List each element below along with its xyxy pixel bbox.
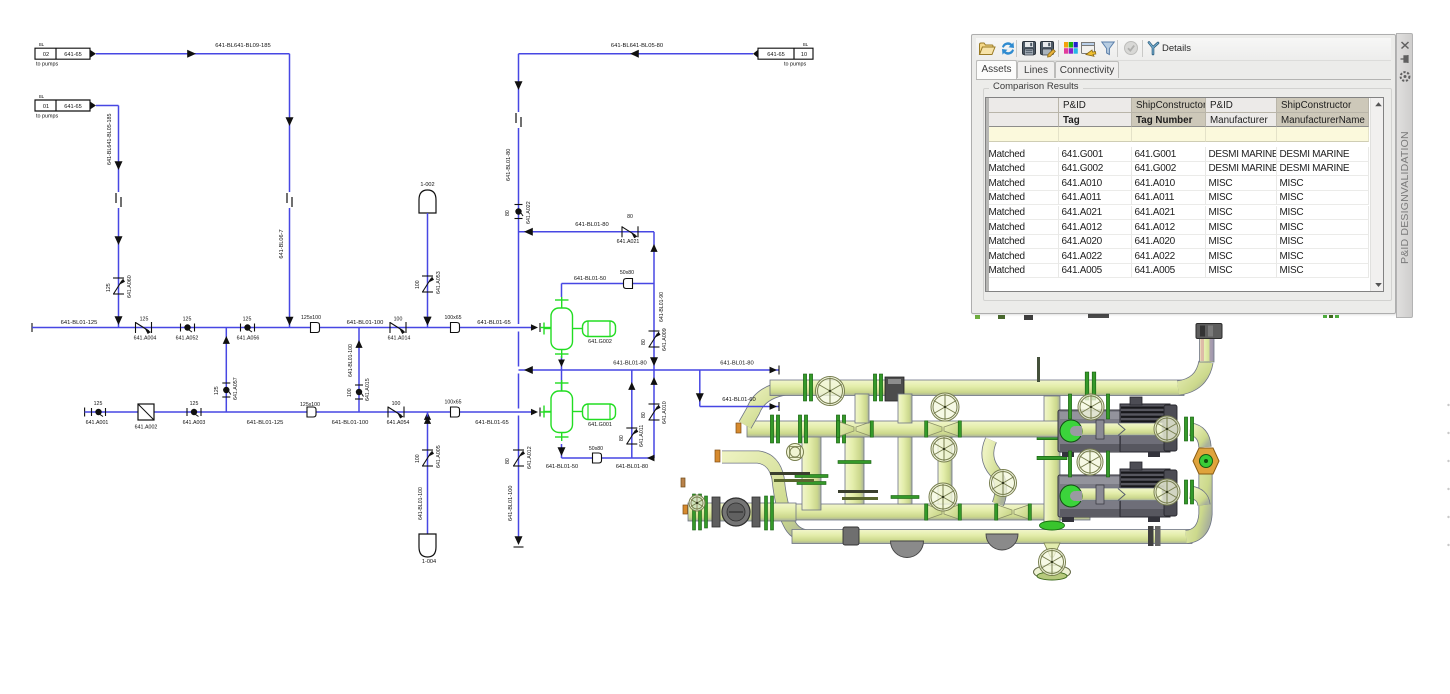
svg-text:80: 80: [641, 412, 647, 418]
globe valve dark body: [712, 497, 720, 527]
faint grid dots right edge: [1447, 404, 1449, 406]
svg-text:641-BL641-BL05-185: 641-BL641-BL05-185: [107, 113, 113, 165]
svg-text:1-002: 1-002: [420, 182, 434, 188]
svg-text:to pumps: to pumps: [36, 62, 58, 68]
orange stub left: [683, 505, 688, 514]
valve 641.A052: [180, 324, 182, 332]
svg-text:641-BL01-60: 641-BL01-60: [722, 397, 756, 403]
svg-text:125x100: 125x100: [300, 402, 320, 408]
orange hex fitting: [1193, 448, 1219, 474]
svg-text:125: 125: [183, 317, 192, 323]
reducer 50x80: [624, 279, 633, 289]
wire lower main: [84, 408, 86, 417]
svg-text:641.A009: 641.A009: [662, 328, 668, 351]
flange pair runA: [873, 374, 876, 401]
off-page flag right 641-65 10: [758, 48, 813, 59]
svg-text:641.A001: 641.A001: [86, 420, 109, 426]
handwheel: [990, 470, 1017, 497]
svg-text:125: 125: [106, 283, 112, 292]
svg-text:641.A053: 641.A053: [436, 271, 442, 294]
check valve 641.A004: [135, 322, 137, 333]
svg-text:80: 80: [627, 214, 633, 220]
junction arrow: [424, 412, 431, 420]
svg-text:BL: BL: [803, 42, 809, 47]
riser x=855: [845, 437, 864, 504]
off-page flag 01 641-65: [35, 100, 90, 111]
svg-text:641.A015: 641.A015: [365, 378, 371, 401]
gate valve on run C: [926, 504, 942, 519]
svg-text:125: 125: [214, 386, 220, 395]
riser left x=811: [802, 432, 821, 510]
pump unit lower: [1058, 475, 1124, 517]
pipe elbow runA left: [745, 388, 786, 425]
wire dome to main: [427, 213, 429, 328]
reducer 125x100: [311, 323, 320, 333]
svg-text:641.A057: 641.A057: [233, 377, 239, 400]
svg-text:641-BL01-125: 641-BL01-125: [247, 420, 284, 426]
svg-text:641-BL01-80: 641-BL01-80: [575, 222, 609, 228]
svg-text:641-BL01-100: 641-BL01-100: [332, 420, 369, 426]
svg-text:125x100: 125x100: [301, 315, 321, 321]
svg-text:641-BL01-50: 641-BL01-50: [574, 276, 606, 282]
wire from flag 01: [96, 105, 119, 107]
svg-text:to pumps: to pumps: [784, 62, 806, 68]
svg-text:641-65: 641-65: [64, 52, 81, 58]
valve 641.A010: [649, 403, 660, 405]
valve 641.A053: [422, 275, 433, 277]
pump inlet flanges: [1068, 394, 1071, 419]
svg-text:641.A060: 641.A060: [127, 275, 133, 298]
valve 641.A005: [422, 449, 433, 451]
svg-text:641.A054: 641.A054: [387, 420, 410, 426]
valve 641.A056: [240, 324, 242, 332]
small wireframe valve: [689, 495, 705, 511]
wire 641-BL641-BL05-80 horizontal: [519, 53, 754, 55]
pipe run lower-middle: [756, 504, 1090, 520]
svg-text:100x65: 100x65: [444, 315, 461, 321]
svg-text:125: 125: [94, 401, 103, 407]
pipe run bottom: [792, 530, 1192, 544]
relief valve wheel: [1039, 549, 1066, 576]
pump 641.G002: [551, 308, 573, 350]
relief valve base: [1034, 565, 1071, 579]
svg-text:641-BL01-80: 641-BL01-80: [616, 464, 648, 470]
svg-text:641.A004: 641.A004: [134, 336, 157, 342]
into pump G001: [531, 409, 538, 415]
svg-text:641-BL01-50: 641-BL01-50: [546, 464, 578, 470]
svg-text:641-BL01-80: 641-BL01-80: [506, 149, 512, 181]
svg-text:125: 125: [243, 317, 252, 323]
valve 641.A060: [113, 277, 124, 279]
svg-text:641.A010: 641.A010: [662, 401, 668, 424]
dark flange pair on run D: [1148, 526, 1154, 546]
wire 641-BL01-60 branch: [699, 370, 701, 407]
green bonnet: [1040, 521, 1065, 530]
svg-text:641.G001: 641.G001: [588, 422, 612, 428]
green flange stack left: [693, 494, 696, 530]
riser big x=1052: [1044, 396, 1060, 524]
flange pairs runB: [770, 415, 773, 443]
handwheel on runA: [816, 377, 845, 406]
svg-text:641-65: 641-65: [767, 52, 784, 58]
valve 641.A014: [389, 322, 391, 333]
left-mid orange stub pipe: [715, 450, 720, 462]
handwheel: [929, 483, 957, 511]
svg-text:641-BL01-100: 641-BL01-100: [347, 320, 384, 326]
pipe clamp dark: [843, 527, 859, 545]
valve 641.A022: [515, 204, 523, 206]
svg-text:641.A012: 641.A012: [527, 446, 533, 469]
flange pair runA right: [1085, 372, 1089, 400]
orange stub runB: [736, 423, 741, 433]
svg-text:641-BL01-65: 641-BL01-65: [475, 420, 509, 426]
reducer 50x80: [593, 453, 602, 463]
svg-text:50x80: 50x80: [620, 270, 634, 276]
svg-text:641-BL641-BL09-185: 641-BL641-BL09-185: [215, 43, 270, 49]
valve 641.A057: [222, 382, 230, 384]
relief valve cone: [1044, 543, 1060, 557]
svg-text:641.A002: 641.A002: [135, 425, 158, 431]
svg-text:80: 80: [619, 435, 625, 441]
strainer 641.A002: [138, 404, 154, 420]
wire upper main: [31, 323, 33, 332]
wire 641-BL01-80 upper branch: [519, 231, 655, 233]
pump 641.G001: [551, 391, 573, 433]
svg-text:100: 100: [415, 454, 421, 463]
riser A-B x=862: [855, 394, 869, 423]
valve 641.A001: [91, 408, 93, 416]
small round valve face: [787, 444, 804, 461]
orange tick: [681, 478, 685, 487]
svg-text:125: 125: [190, 401, 199, 407]
flanges on risers: [838, 461, 871, 464]
svg-text:100: 100: [392, 401, 401, 407]
handwheel: [931, 436, 957, 462]
svg-text:641-BL01-100: 641-BL01-100: [508, 486, 514, 521]
svg-text:100: 100: [394, 317, 403, 323]
svg-text:641.A056: 641.A056: [237, 336, 260, 342]
gate valve runB: [926, 421, 942, 436]
svg-text:100: 100: [347, 388, 353, 397]
svg-text:to pumps: to pumps: [36, 114, 58, 120]
svg-text:641-BL01-100: 641-BL01-100: [418, 487, 424, 520]
pipe end: [515, 536, 523, 545]
svg-text:641-BL01-125: 641-BL01-125: [61, 320, 98, 326]
svg-text:100: 100: [415, 280, 421, 289]
svg-text:125: 125: [140, 317, 149, 323]
valve 641.A012: [513, 449, 524, 451]
line break symbol: [284, 192, 296, 208]
wire x=226.3 crossover: [225, 328, 227, 413]
svg-text:1-004: 1-004: [422, 559, 436, 565]
wire 641-BL01-80 main horizontal: [519, 369, 780, 371]
wire vertical 641-BL01-90: [653, 284, 655, 459]
P&ID DesignValidation palette panel: [971, 34, 1396, 314]
svg-text:80: 80: [505, 210, 511, 216]
riser x=905: [898, 437, 912, 504]
svg-text:641.A003: 641.A003: [183, 420, 206, 426]
wire vertical 641-BL01-80 x=518.5: [518, 54, 520, 324]
gate valve on run C: [996, 504, 1012, 519]
handwheel right lower: [1154, 479, 1180, 505]
riser A-B x=905: [898, 394, 912, 423]
elbow pump1 to right vertical: [1190, 429, 1205, 447]
pipe run top: [770, 380, 1184, 396]
svg-text:641-BL01-80: 641-BL01-80: [613, 361, 647, 367]
left pipe: [688, 503, 796, 521]
svg-text:641-BL01-100: 641-BL01-100: [348, 344, 354, 377]
svg-text:50x80: 50x80: [589, 446, 603, 452]
wire 641-BL01-50/80 bottom: [561, 444, 563, 458]
small pipe tops under panel: [975, 315, 980, 319]
svg-text:641.A022: 641.A022: [526, 201, 532, 224]
svg-text:80: 80: [505, 458, 511, 464]
line break symbol: [513, 112, 525, 128]
riser x=945: [938, 437, 952, 504]
pipe cap dark: [1196, 324, 1222, 339]
wire x=631.8 crossover: [631, 370, 633, 458]
svg-text:80: 80: [641, 339, 647, 345]
dark box on runA: [885, 377, 904, 401]
handwheel: [931, 393, 959, 421]
wire vertical x=289.5 drop: [289, 54, 291, 328]
wire G002 drain: [561, 356, 563, 370]
handwheel right upper: [1154, 416, 1180, 442]
line break symbol: [113, 192, 125, 208]
svg-text:641-BL06-7: 641-BL06-7: [279, 229, 285, 258]
valve 641.A015: [355, 384, 363, 386]
check valve 641.A021: [621, 226, 623, 237]
svg-text:641.A005: 641.A005: [436, 445, 442, 468]
svg-text:641.A014: 641.A014: [388, 336, 411, 342]
svg-text:02: 02: [43, 52, 49, 58]
svg-text:641-65: 641-65: [64, 104, 81, 110]
svg-text:641-BL641-BL05-80: 641-BL641-BL05-80: [611, 43, 663, 49]
off-page flag 02 641-65: [35, 48, 90, 59]
wire vertical x=654: [653, 232, 655, 284]
svg-text:BL: BL: [39, 94, 45, 99]
svg-text:641.G002: 641.G002: [588, 339, 612, 345]
support saddle: [986, 534, 1018, 550]
svg-text:641-BL01-65: 641-BL01-65: [477, 320, 511, 326]
svg-text:100x65: 100x65: [444, 400, 461, 406]
pump handwheel upper: [1078, 394, 1104, 420]
svg-text:01: 01: [43, 104, 49, 110]
svg-text:10: 10: [801, 52, 807, 58]
wire G001 top stub: [561, 370, 563, 391]
svg-text:641-BL01-90: 641-BL01-90: [659, 292, 665, 322]
reducer 100x65: [451, 407, 460, 417]
elbow pump2 to right vertical: [1190, 492, 1204, 505]
flange pair runA: [803, 374, 806, 401]
pipe sweep left-bottom: [722, 457, 806, 536]
valve 641.A003: [186, 408, 188, 416]
support saddle: [891, 541, 924, 558]
big elbow top-right: [1178, 362, 1206, 388]
dark stick above runA: [1037, 357, 1040, 382]
svg-text:BL: BL: [39, 42, 45, 47]
pump unit upper: [1058, 410, 1124, 452]
tank 1-004: [419, 534, 436, 557]
wire 641-BL641-BL09-185 horizontal: [96, 53, 290, 55]
svg-text:641.A011: 641.A011: [639, 425, 645, 447]
pump handwheel lower: [1077, 449, 1103, 475]
dark thin flange plates: [770, 472, 810, 475]
pipe run second: [747, 421, 1068, 437]
valve 641.A054: [387, 407, 389, 418]
reducer 100x65: [451, 323, 460, 333]
valve 641.A011: [626, 427, 637, 429]
s-pipe mid: [988, 440, 1001, 504]
right vertical pipe with bottom elbow: [1186, 452, 1206, 537]
svg-text:641.A052: 641.A052: [176, 336, 199, 342]
wire lower dome branch: [427, 412, 429, 534]
svg-text:641.A021: 641.A021: [617, 239, 640, 245]
tank 1-002: [419, 190, 436, 213]
into pump G002: [531, 324, 538, 330]
valve 641.A009: [649, 330, 660, 332]
wire 641-BL01-50 G002 discharge: [561, 284, 563, 298]
reducer 125x100: [307, 407, 316, 417]
svg-text:641-BL01-80: 641-BL01-80: [720, 361, 754, 367]
vertical pipe top-right: [1200, 338, 1215, 362]
gate valve runB mid: [838, 421, 854, 436]
wire x=359 crossover: [358, 328, 360, 413]
flange discs on riser: [795, 475, 828, 478]
